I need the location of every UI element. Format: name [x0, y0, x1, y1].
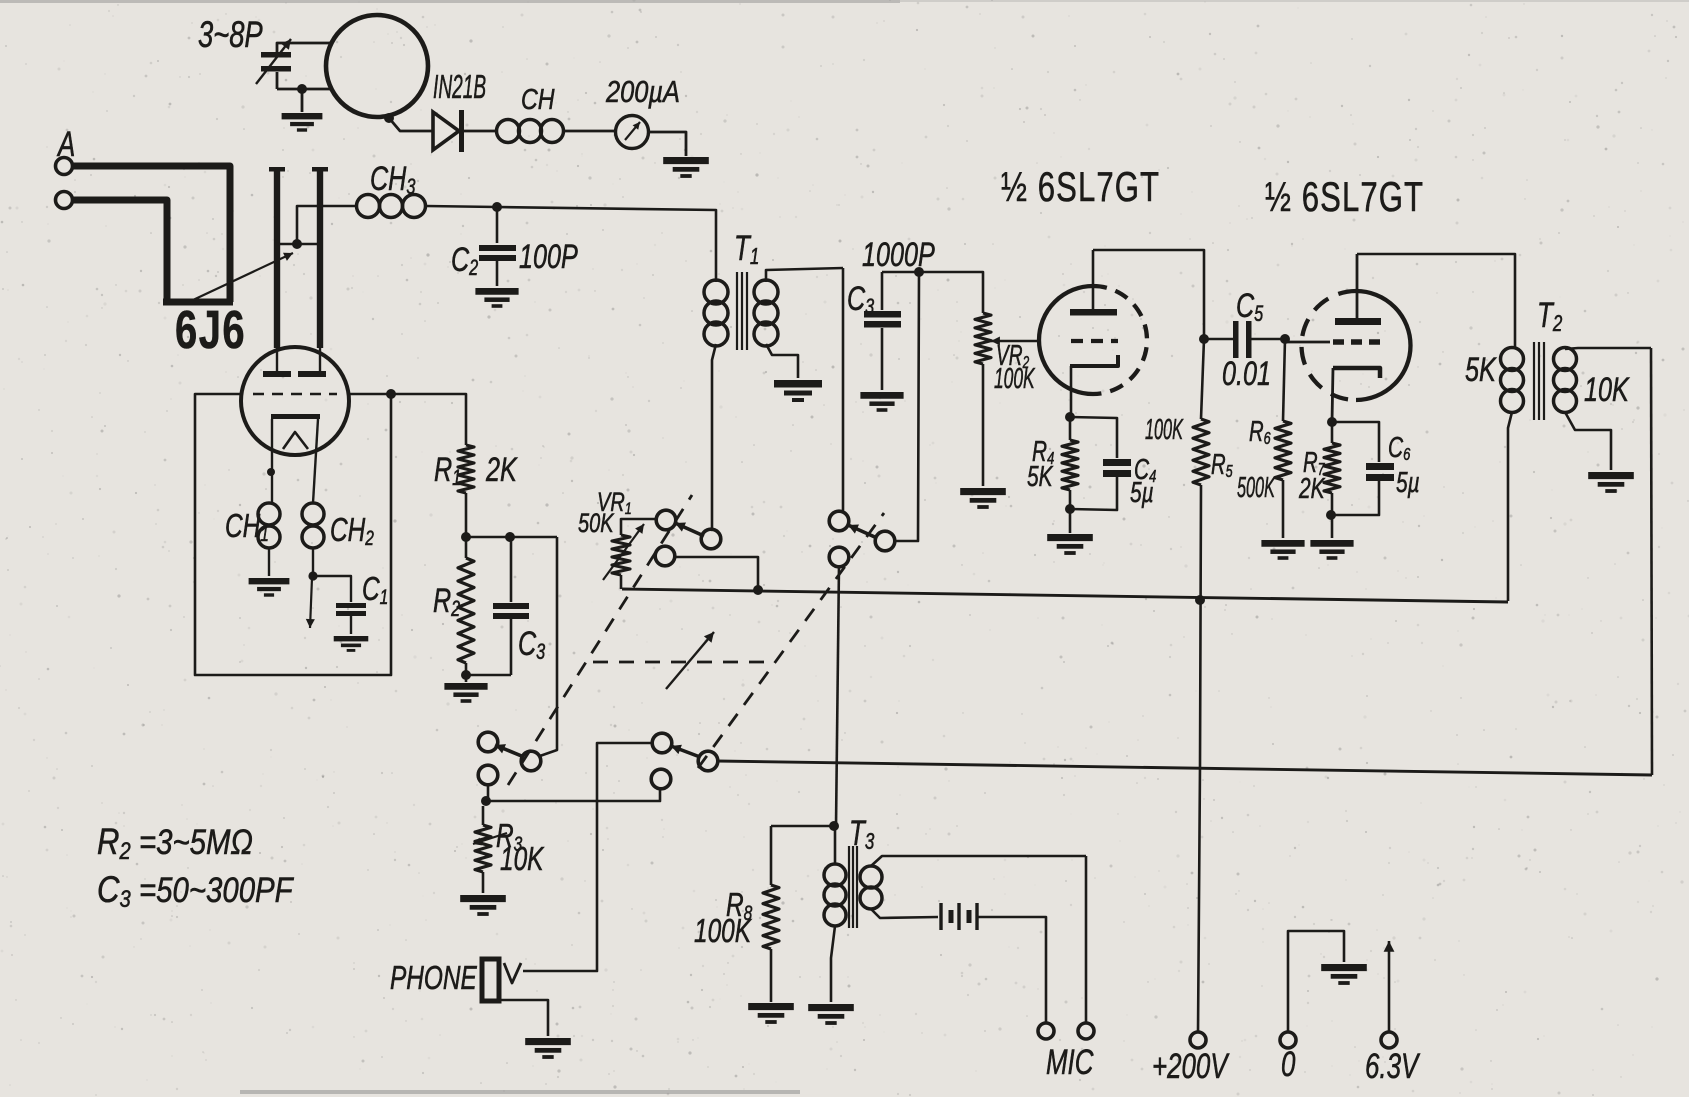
junction — [492, 202, 502, 212]
junction — [461, 532, 515, 542]
terminal 6.3V — [1365, 941, 1420, 1086]
wire — [486, 787, 660, 801]
wire — [1204, 338, 1235, 341]
resistor R1 2K — [434, 445, 518, 537]
svg-text:3~8P: 3~8P — [198, 14, 263, 55]
note C3 value — [97, 870, 295, 913]
svg-text:½ 6SL7GT: ½ 6SL7GT — [1001, 163, 1160, 210]
ganged switch dashed link — [508, 495, 692, 785]
potentiometer VR2 100K — [975, 313, 1039, 486]
svg-text:2K: 2K — [1298, 473, 1325, 505]
ground — [860, 392, 903, 412]
switch contact — [478, 765, 498, 785]
switch S1a — [656, 510, 721, 549]
bus wire — [622, 589, 1508, 602]
wire — [563, 130, 617, 133]
switch contact — [655, 546, 675, 566]
choke CH2 — [302, 503, 374, 574]
svg-text:6J6: 6J6 — [175, 300, 246, 360]
svg-text:5K: 5K — [1465, 351, 1497, 389]
ground — [960, 488, 1006, 509]
antenna stub feeder — [73, 166, 233, 302]
resistor R7 2K — [1298, 368, 1340, 538]
potentiometer VR1 50K — [578, 487, 657, 589]
choke CH3 — [357, 160, 426, 217]
junction — [1327, 417, 1337, 427]
wire — [537, 537, 557, 757]
svg-text:1000P: 1000P — [862, 236, 935, 274]
switch S1d — [652, 733, 718, 771]
transformer T1 — [704, 228, 843, 528]
junction — [1326, 510, 1336, 520]
capacitor C5 0.01 — [1222, 287, 1285, 393]
switch contact — [651, 769, 671, 789]
ground — [334, 636, 369, 652]
capacitor C4 5u — [1070, 417, 1157, 510]
wire — [1651, 348, 1652, 775]
arrow — [306, 578, 315, 628]
switch S1b pole — [829, 511, 895, 551]
ground — [1261, 540, 1304, 560]
capacitor C3 50-300PF — [466, 537, 557, 675]
svg-text:0.01: 0.01 — [1222, 355, 1271, 393]
svg-text:500K: 500K — [1237, 471, 1276, 503]
choke CH1 — [225, 503, 280, 576]
trimmer capacitor 3~8P — [198, 14, 330, 89]
tap pointer arrow — [193, 253, 293, 300]
resistor R5 100K — [1145, 339, 1233, 485]
junction — [384, 113, 394, 123]
junction — [461, 670, 471, 680]
wire — [842, 268, 845, 513]
ground — [460, 895, 506, 916]
wire — [836, 565, 839, 826]
choke CH — [497, 82, 564, 142]
svg-text:MIC: MIC — [1046, 1042, 1094, 1082]
wire — [893, 272, 919, 541]
diode IN21B — [433, 69, 497, 152]
svg-text:½ 6SL7GT: ½ 6SL7GT — [1265, 173, 1424, 220]
wire — [882, 272, 983, 313]
ground — [525, 1038, 571, 1059]
svg-text:50K: 50K — [578, 508, 615, 539]
wire — [389, 118, 433, 131]
capacitor C2 100P — [451, 207, 578, 286]
junction — [829, 821, 839, 831]
svg-text:CH: CH — [521, 82, 555, 115]
capacitor C3 1000P — [847, 236, 935, 390]
wire — [391, 394, 466, 445]
resistor R6 500K — [1237, 339, 1291, 538]
ground — [282, 89, 323, 132]
resistor R2 — [433, 537, 474, 675]
switch S1c — [478, 732, 541, 771]
svg-text:0: 0 — [1281, 1044, 1295, 1084]
bus wire — [717, 761, 1652, 775]
svg-text:2K: 2K — [485, 451, 518, 489]
capacitor C1 — [313, 572, 388, 634]
wire — [1085, 856, 1088, 1024]
ground — [1310, 540, 1353, 560]
ground — [1588, 472, 1634, 493]
phone jack — [390, 959, 548, 1036]
tube 6J6 — [175, 300, 349, 503]
resistor R3 10K — [473, 806, 545, 893]
ganged switch dashed link — [698, 513, 884, 768]
svg-text:5K: 5K — [1027, 461, 1053, 493]
resistor R8 100K — [694, 826, 834, 1002]
tube V2 half 6SL7GT — [1265, 173, 1424, 400]
resistor R4 5K — [1027, 417, 1078, 509]
wire — [523, 743, 654, 971]
junction — [1280, 334, 1290, 344]
svg-text:100K: 100K — [994, 363, 1035, 396]
svg-text:5µ: 5µ — [1396, 467, 1420, 499]
junction — [308, 571, 317, 580]
wire — [648, 132, 686, 156]
ground — [663, 157, 709, 178]
wire — [277, 88, 331, 91]
svg-text:200µA: 200µA — [605, 75, 680, 110]
ground — [1321, 964, 1367, 985]
ground — [808, 1004, 854, 1025]
ganged switch dashed link — [593, 661, 768, 664]
svg-text:100K: 100K — [694, 914, 752, 950]
svg-text:10K: 10K — [500, 842, 545, 878]
svg-text:10K: 10K — [1584, 371, 1630, 409]
terminal 0 — [1280, 931, 1344, 1084]
battery — [941, 903, 1046, 1024]
junction — [292, 239, 302, 249]
transformer T3 — [824, 813, 1086, 1002]
wire — [487, 783, 490, 801]
transformer T2 — [1465, 295, 1651, 601]
wire — [1198, 485, 1201, 1033]
svg-text:A: A — [56, 124, 75, 164]
junction — [1065, 504, 1075, 514]
wire — [711, 528, 712, 531]
terminal A — [56, 124, 76, 208]
junction — [1199, 334, 1209, 344]
arrow — [666, 632, 714, 689]
shorting bar — [277, 243, 320, 246]
ground — [444, 675, 487, 703]
meter 200uA — [605, 75, 680, 149]
svg-text:IN21B: IN21B — [433, 69, 486, 106]
svg-text:5µ: 5µ — [1130, 477, 1154, 509]
svg-text:=3~5MΩ: =3~5MΩ — [139, 823, 253, 862]
svg-text:100K: 100K — [1145, 413, 1184, 445]
junction — [1065, 412, 1075, 422]
ground — [774, 380, 822, 402]
wire — [497, 207, 716, 270]
wire — [1357, 254, 1515, 349]
junction — [297, 84, 307, 94]
ground — [1047, 509, 1093, 555]
terminal +200V — [1152, 1032, 1230, 1086]
wire — [297, 206, 356, 244]
junction — [1195, 595, 1205, 605]
ground — [249, 578, 290, 597]
svg-text:+200V: +200V — [1152, 1046, 1230, 1086]
svg-text:100P: 100P — [519, 238, 578, 276]
junction — [753, 585, 763, 595]
wire — [1093, 250, 1204, 339]
junction — [914, 267, 924, 277]
ground — [748, 1003, 794, 1024]
svg-text:6.3V: 6.3V — [1365, 1046, 1420, 1086]
terminal MIC — [1038, 1023, 1094, 1082]
wire — [426, 206, 497, 207]
cavity resonator — [326, 15, 428, 117]
svg-text:=50~300PF: =50~300PF — [139, 871, 295, 910]
capacitor C6 5u — [1331, 422, 1420, 515]
shield box — [195, 394, 391, 675]
tube V1 half 6SL7GT — [1001, 163, 1160, 416]
ground — [475, 288, 518, 308]
junction — [386, 389, 396, 399]
junction — [481, 796, 491, 806]
lecher line bars — [269, 167, 328, 348]
note R2 value — [97, 822, 253, 865]
switch contact — [829, 547, 849, 567]
svg-text:PHONE: PHONE — [390, 961, 477, 997]
wire — [673, 557, 758, 589]
